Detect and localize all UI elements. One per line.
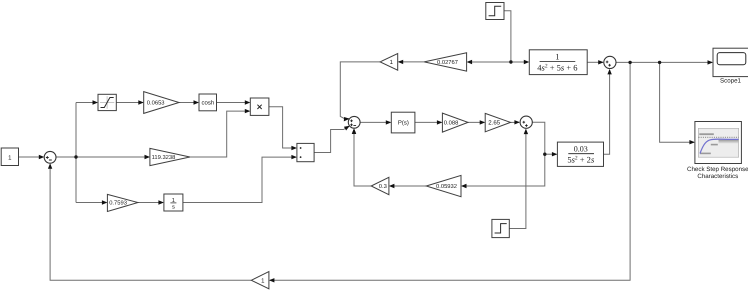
- svg-text:2.65: 2.65: [488, 120, 500, 127]
- wire TF2 up to sum3: [604, 70, 610, 154]
- wire branch vertical: [75, 103, 77, 203]
- gain 1 bottom: [251, 272, 269, 289]
- wire gain1bottom to sum1: [50, 164, 251, 280]
- wire gain 0.088 to gain 2.65: [468, 121, 484, 123]
- svg-text:0.7593: 0.7593: [109, 200, 127, 207]
- svg-text:Check Step Response: Check Step Response: [687, 166, 748, 173]
- wire product X to product2 in1: [269, 107, 296, 148]
- TF2 block 0.03/(5s^2+2s): [557, 142, 603, 166]
- wire constant to sum1: [19, 156, 44, 158]
- wire sum3 to scope: [616, 61, 712, 63]
- arrowhead into gain 0.088: [437, 120, 443, 124]
- arrowhead into TF1: [524, 60, 530, 64]
- svg-text:0.088: 0.088: [444, 120, 459, 127]
- arrowhead into cosh: [194, 100, 200, 104]
- svg-text:0.3: 0.3: [379, 183, 387, 190]
- svg-text:0.0653: 0.0653: [147, 100, 165, 107]
- wire gain 0.7593 to integrator: [138, 202, 163, 204]
- arrowhead into check block: [689, 140, 695, 144]
- gain 0.3: [371, 177, 389, 194]
- sum3: [604, 56, 616, 68]
- saturation block: [98, 94, 116, 110]
- wire junction to TF2: [545, 153, 557, 155]
- cosh block: [199, 94, 217, 111]
- svg-text:0.02767: 0.02767: [437, 59, 458, 66]
- wire gain 0.05932 to gain 0.3: [390, 185, 426, 187]
- junction dot TF2 input: [543, 153, 546, 156]
- sum2: [520, 116, 532, 128]
- arrowhead into sum2: [514, 120, 520, 124]
- step2 block: [492, 219, 509, 237]
- arrowhead into sum1: [39, 155, 45, 159]
- svg-text:P(s): P(s): [398, 120, 409, 127]
- wire integrator to product2 in2: [183, 157, 296, 202]
- wire gain 119.3238 to product X in2: [190, 111, 250, 157]
- svg-text:Characteristics: Characteristics: [697, 173, 738, 180]
- arrowhead into product X in1: [245, 100, 251, 104]
- arrowhead into gain 0.7593: [102, 200, 108, 204]
- svg-text:1: 1: [555, 51, 559, 61]
- wire main feedback down and left to gain1bottom: [270, 62, 630, 280]
- arrowhead into gain 0.3: [389, 184, 395, 188]
- arrowhead into gain 0.02767: [467, 60, 473, 64]
- wire junction right to TF1: [511, 61, 529, 63]
- arrowhead into gain1top: [398, 60, 404, 64]
- wire sum2 out down to feedback: [462, 122, 545, 186]
- arrowhead into sum3 bottom: [607, 69, 611, 75]
- arrowhead into summid lower-left: [344, 126, 350, 131]
- gain 0.02767: [424, 53, 466, 71]
- gain 1 top: [380, 54, 398, 71]
- wire saturation to gain 0.0653: [116, 102, 143, 104]
- wire TF1 to sum3: [587, 61, 603, 63]
- product X block: [250, 98, 269, 115]
- svg-text:4s2 + 5s + 6: 4s2 + 5s + 6: [537, 62, 577, 72]
- arrowhead into product2 in1: [291, 146, 297, 150]
- wire product2 to summid: [314, 126, 349, 152]
- scope1 block: [713, 48, 748, 84]
- wire sum1 out to gain 119.3238: [56, 156, 149, 158]
- gain 0.0653: [144, 92, 179, 114]
- arrowhead into gain 119.3238: [145, 155, 151, 159]
- arrowhead into integrator: [158, 200, 164, 204]
- wire summid to P(s): [360, 121, 390, 123]
- product2 rectangle block: [297, 143, 314, 161]
- arrowhead into scope: [708, 60, 714, 64]
- wire step1 down to junction: [504, 11, 511, 62]
- wire P(s) to gain 0.088: [415, 121, 442, 123]
- svg-text:119.3238: 119.3238: [152, 154, 176, 161]
- wire gain 0.02767 to gain1top: [399, 61, 424, 63]
- check step response block: [687, 122, 748, 180]
- arrowhead into summid from 0.3: [352, 128, 356, 134]
- arrowhead into TF2: [552, 152, 558, 156]
- arrowhead into gain 2.65: [480, 120, 486, 124]
- wire cosh to product X in1: [217, 102, 250, 104]
- step1 block: [486, 3, 504, 20]
- gain 0.05932: [426, 175, 461, 196]
- gain 2.65: [485, 113, 510, 131]
- wire gain 0.0653 to cosh: [179, 102, 198, 104]
- wire gain1top loop down to summid: [340, 62, 380, 119]
- svg-text:s: s: [172, 205, 175, 211]
- svg-text:0.05932: 0.05932: [436, 183, 457, 190]
- arrowhead into sum1 bottom: [48, 163, 52, 169]
- sum1: [44, 151, 56, 163]
- wire step2 to sum2: [509, 130, 526, 229]
- arrowhead into saturation: [93, 100, 99, 104]
- TF1 block 1/(4s^2+5s+6): [529, 50, 587, 75]
- P(s) block: [391, 112, 415, 133]
- gain 0.088: [442, 113, 468, 132]
- summid: [348, 116, 360, 128]
- wire branch to check block: [660, 62, 694, 142]
- svg-text:0.03: 0.03: [574, 145, 588, 154]
- junction dot main out 2: [658, 61, 661, 64]
- svg-text:5s2 + 2s: 5s2 + 2s: [567, 155, 595, 165]
- gain 119.3238: [150, 148, 190, 165]
- constant block 1: [1, 148, 18, 166]
- arrowhead into gain1bottom: [269, 278, 275, 282]
- junction dot step1: [509, 60, 512, 63]
- arrowhead into P(s): [386, 120, 392, 124]
- wire junction left to gain 0.02767: [468, 61, 511, 63]
- arrowhead into gain 0.0653: [138, 100, 144, 104]
- wire branch top to saturation: [76, 102, 97, 104]
- arrowhead into gain 0.05932: [461, 184, 467, 188]
- svg-text:Scope1: Scope1: [720, 78, 742, 85]
- arrowhead into product2 in2: [291, 155, 297, 159]
- arrowhead into sum2 bottom: [524, 129, 528, 135]
- arrowhead into sum3: [598, 60, 604, 64]
- integrator 1/s: [164, 194, 183, 211]
- wire branch bottom to gain 0.7593: [76, 202, 107, 204]
- gain 0.7593: [107, 194, 137, 211]
- junction dot A: [74, 155, 77, 158]
- junction dot main out 1: [628, 61, 631, 64]
- arrowhead into product X in2: [245, 109, 251, 113]
- arrowhead into summid bottom: [352, 128, 356, 134]
- wire gain 0.3 up to summid: [354, 129, 371, 186]
- wire gain 2.65 to sum2: [511, 121, 520, 123]
- arrowhead into summid upper-left: [344, 117, 350, 121]
- svg-text:cosh: cosh: [202, 100, 215, 107]
